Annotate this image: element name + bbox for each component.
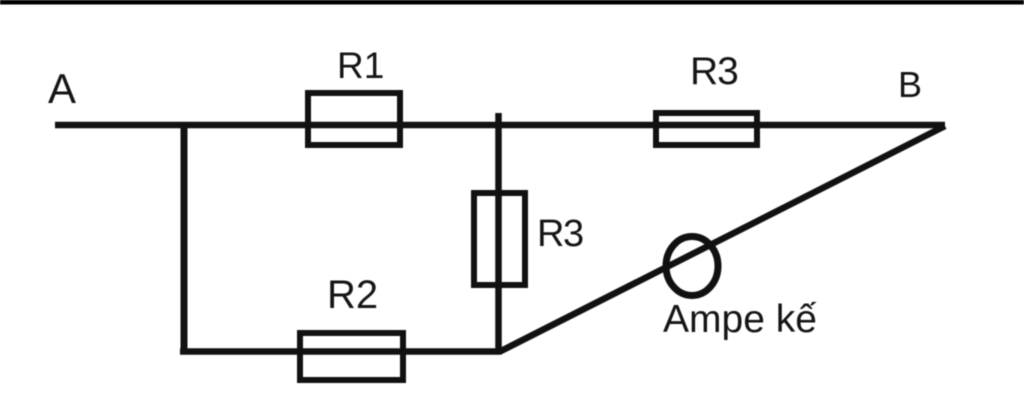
ammeter circle bbox=[666, 237, 718, 296]
svg-text:R3: R3 bbox=[690, 50, 738, 93]
resistor R3 (vertical) bbox=[474, 193, 525, 285]
resistor R3 (top) bbox=[656, 113, 757, 145]
wire: left branch vertical at junction bbox=[181, 125, 188, 355]
resistor R2 bbox=[300, 333, 403, 380]
wire: bottom horizontal through R2 bbox=[180, 348, 500, 355]
wire: main top horizontal from A to tip at B bbox=[55, 122, 945, 129]
svg-text:A: A bbox=[48, 65, 76, 112]
top border bar bbox=[0, 0, 1024, 5]
wire: central vertical through R3 bbox=[495, 113, 502, 355]
svg-text:R1: R1 bbox=[337, 45, 384, 86]
svg-text:R2: R2 bbox=[327, 273, 378, 317]
svg-text:B: B bbox=[898, 64, 922, 105]
resistor R1 bbox=[308, 93, 400, 145]
svg-text:Ampe kế: Ampe kế bbox=[663, 298, 817, 341]
svg-text:R3: R3 bbox=[537, 213, 583, 255]
wire: diagonal from bottom junction to B tip bbox=[499, 126, 945, 352]
